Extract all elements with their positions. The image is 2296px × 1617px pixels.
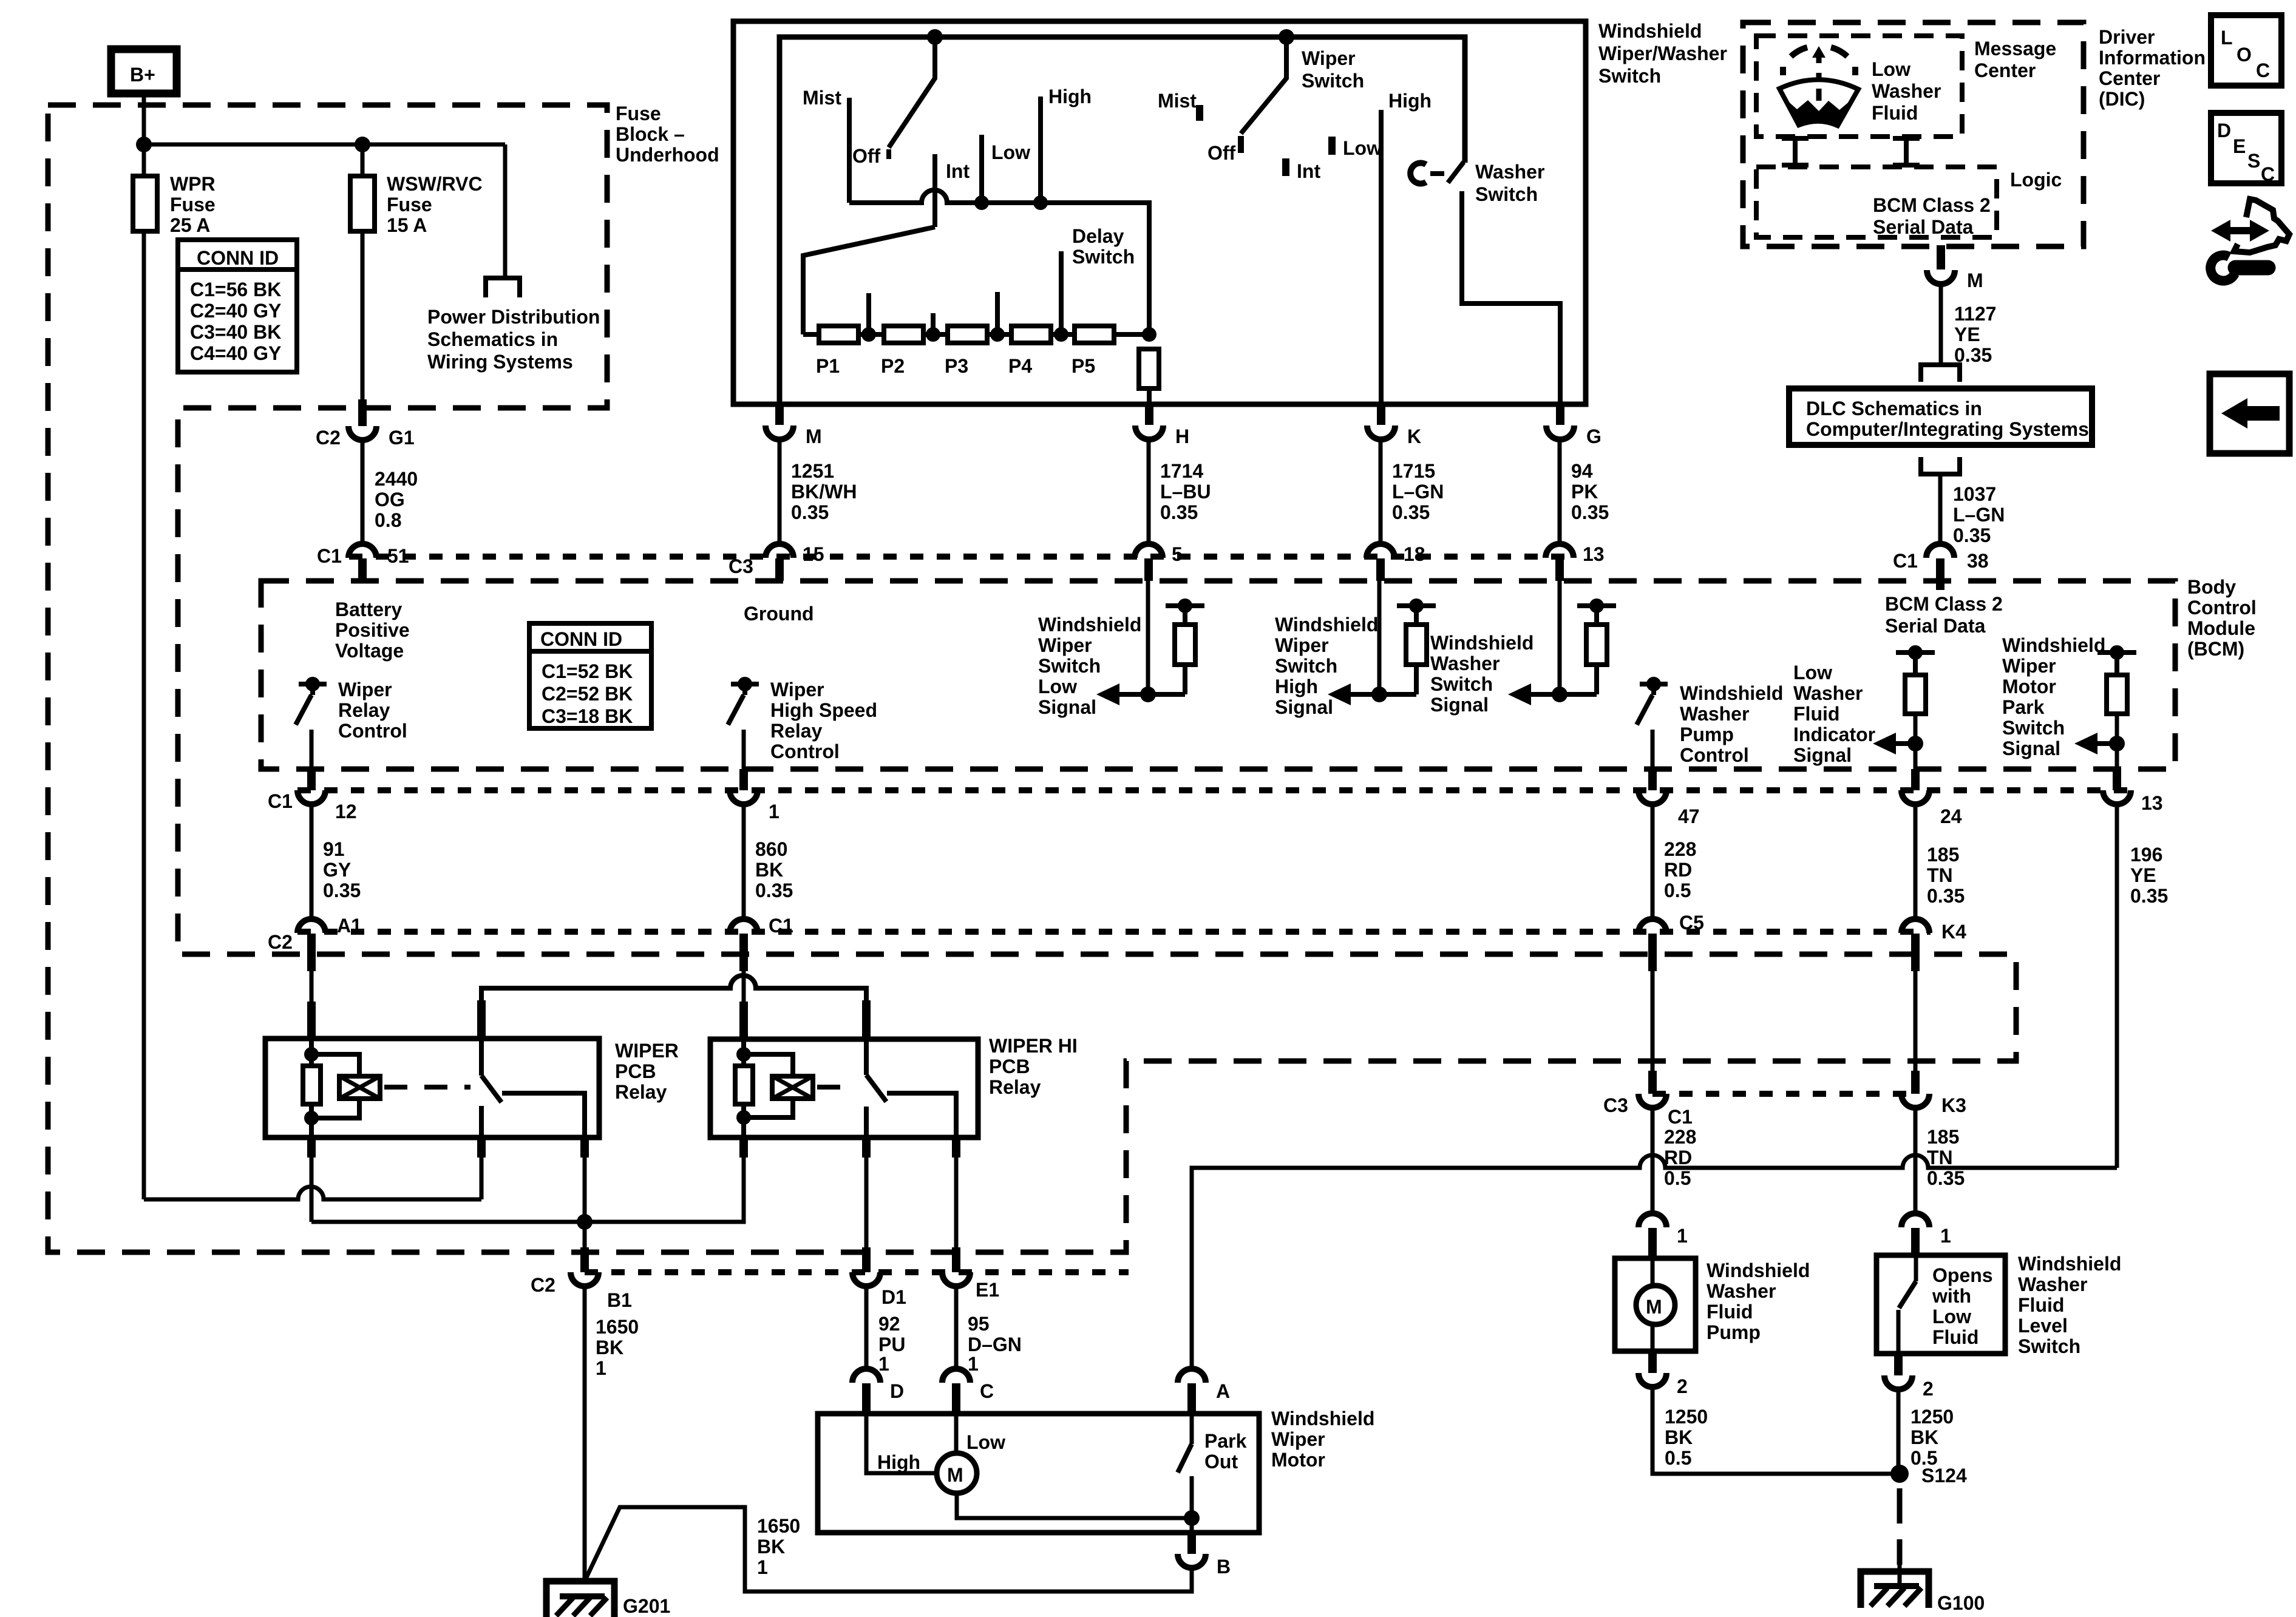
wiper motor park switch signal pull-down (2074, 645, 2136, 769)
svg-text:B1: B1 (607, 1289, 632, 1311)
wire resistor chain (803, 332, 1149, 337)
B+ box (111, 49, 177, 93)
switch windshield washer pump control (1640, 682, 1668, 686)
resistor K1 coil suppression (303, 1066, 321, 1104)
DIC outer dashed box (1743, 22, 2084, 246)
wire 185 TN upper (1914, 804, 1918, 921)
svg-text:0.35: 0.35 (791, 501, 829, 523)
svg-text:K4: K4 (1941, 921, 1966, 943)
svg-text:Ground: Ground (744, 603, 814, 625)
svg-text:M: M (947, 1464, 963, 1486)
svg-text:0.5: 0.5 (1665, 1447, 1691, 1469)
svg-text:Windshield: Windshield (2002, 634, 2105, 656)
svg-text:1: 1 (1940, 1225, 1951, 1247)
svg-text:WSW/RVC: WSW/RVC (387, 173, 483, 195)
svg-text:Fluid: Fluid (1793, 703, 1839, 725)
svg-text:Control: Control (1680, 744, 1749, 766)
svg-text:Power Distribution: Power Distribution (427, 306, 600, 328)
svg-text:Serial Data: Serial Data (1873, 216, 1974, 238)
svg-text:Fluid: Fluid (1932, 1326, 1978, 1348)
wire 94 PK (1558, 439, 1562, 546)
svg-text:92: 92 (878, 1313, 900, 1335)
svg-text:L: L (2221, 27, 2233, 49)
svg-text:Wiper: Wiper (1302, 47, 1356, 69)
svg-text:18: 18 (1404, 543, 1425, 565)
connector 2 washer pump (1648, 1351, 1657, 1373)
resistor K2 coil suppression (735, 1066, 753, 1104)
svg-text:M: M (1967, 269, 1983, 291)
windshield wiper/washer switch box (733, 21, 1586, 404)
svg-text:A: A (1216, 1380, 1230, 1402)
svg-text:G100: G100 (1937, 1592, 1985, 1614)
wire motor return (957, 1493, 1192, 1518)
svg-text:1250: 1250 (1911, 1406, 1954, 1428)
svg-text:13: 13 (1583, 543, 1605, 565)
BCM dashed box (261, 581, 2175, 769)
svg-text:K3: K3 (1941, 1094, 1966, 1116)
svg-text:Wiper: Wiper (770, 679, 824, 700)
wire position bus (849, 190, 1149, 334)
svg-text:Relay: Relay (770, 720, 823, 742)
svg-text:0.35: 0.35 (1927, 885, 1965, 907)
svg-text:15: 15 (803, 543, 824, 565)
svg-text:Fuse: Fuse (616, 103, 661, 124)
svg-text:Signal: Signal (1275, 696, 1333, 718)
connector G pin (1556, 403, 1564, 425)
fuse F2 WSW/RVC (350, 176, 375, 231)
low washer fluid indicator pull-down (1873, 645, 1935, 769)
svg-text:Signal: Signal (1430, 694, 1489, 716)
svg-text:Information: Information (2099, 47, 2206, 69)
svg-text:High Speed: High Speed (770, 699, 877, 721)
svg-text:Schematics in: Schematics in (427, 328, 558, 350)
connector 1 washer pump (1639, 1213, 1666, 1227)
node WSW branch (355, 137, 370, 152)
svg-text:15 A: 15 A (387, 214, 427, 236)
node wiper lever pivot (927, 29, 943, 45)
svg-text:Wiring Systems: Wiring Systems (427, 351, 573, 373)
svg-text:38: 38 (1967, 550, 1989, 572)
switch park out (1190, 1414, 1194, 1444)
svg-text:Block –: Block – (616, 123, 685, 145)
wire park signal line (1192, 1155, 2117, 1371)
svg-text:Switch: Switch (1275, 655, 1337, 677)
connector 1 level switch (1901, 1213, 1929, 1227)
svg-text:Off: Off (852, 145, 881, 167)
logic dashed box (1756, 167, 1997, 237)
svg-text:Motor: Motor (2002, 676, 2056, 697)
svg-text:C2=40 GY: C2=40 GY (190, 300, 281, 322)
wiper switch high signal pull-up (1328, 581, 1436, 705)
svg-text:WPR: WPR (170, 173, 216, 195)
CONN ID table fuse block (178, 240, 297, 372)
connector C (942, 1369, 970, 1383)
wire B+ branch horizontal (144, 143, 505, 147)
svg-text:CONN ID: CONN ID (540, 628, 622, 650)
connector C2 B1 (580, 1247, 589, 1272)
svg-text:0.35: 0.35 (323, 880, 361, 901)
svg-text:Switch: Switch (1475, 183, 1538, 205)
svg-text:H: H (1175, 425, 1189, 447)
svg-text:L–BU: L–BU (1160, 481, 1211, 503)
connector C1 38 (1926, 544, 1954, 558)
connector D1 (862, 1247, 871, 1272)
svg-text:Indicator: Indicator (1793, 724, 1875, 745)
connector 13 r2 (2113, 769, 2121, 790)
connector M pin (775, 403, 784, 425)
wire C1 to wiper hi relay coil (742, 971, 746, 1005)
wire motor high (866, 1414, 937, 1473)
wire 1715 L-GN (1379, 439, 1383, 546)
svg-text:Relay: Relay (989, 1076, 1041, 1098)
svg-text:BK: BK (596, 1337, 623, 1358)
node S124 (1890, 1465, 1909, 1483)
svg-text:Control: Control (338, 720, 407, 742)
svg-text:Low: Low (1932, 1306, 1971, 1327)
svg-text:High: High (1275, 676, 1318, 697)
svg-text:M: M (806, 425, 822, 447)
svg-text:0.35: 0.35 (1160, 501, 1198, 523)
svg-text:Wiper: Wiper (1038, 634, 1092, 656)
svg-text:D: D (2217, 120, 2231, 141)
svg-text:Wiper: Wiper (2002, 655, 2056, 677)
svg-text:Windshield: Windshield (1275, 614, 1378, 636)
svg-text:1: 1 (878, 1353, 889, 1375)
wire B+ feed to relay (144, 1187, 481, 1199)
svg-text:Park: Park (1204, 1430, 1247, 1452)
wire 1127 YE (1939, 284, 1943, 363)
svg-text:Washer: Washer (1430, 653, 1500, 674)
svg-text:Computer/Integrating Systems: Computer/Integrating Systems (1806, 418, 2089, 440)
svg-text:0.35: 0.35 (1571, 501, 1609, 523)
svg-text:D–GN: D–GN (968, 1334, 1022, 1355)
wire A1 to wiper relay coil (310, 971, 314, 1005)
wire 91 GY (310, 804, 314, 921)
washer pump box (1615, 1258, 1696, 1351)
svg-text:BCM Class 2: BCM Class 2 (1873, 194, 1991, 216)
connector 5 (1135, 544, 1163, 558)
svg-text:G1: G1 (389, 427, 415, 449)
svg-text:13: 13 (2141, 792, 2163, 814)
node relay output junction (577, 1214, 593, 1230)
svg-text:P2: P2 (881, 355, 905, 377)
wire 95 D-GN (954, 1286, 959, 1371)
svg-text:GY: GY (323, 859, 351, 881)
svg-text:0.5: 0.5 (1664, 1167, 1691, 1189)
wire WSW fuse drop (361, 144, 365, 402)
wire 1650 BK from B1 to G201 (583, 1286, 587, 1581)
svg-text:1250: 1250 (1665, 1406, 1708, 1428)
wire K1 coil low side (310, 1158, 314, 1222)
svg-text:C3=18 BK: C3=18 BK (542, 705, 633, 727)
svg-text:Fluid: Fluid (1707, 1301, 1753, 1323)
wire K2 output to E1 (954, 1158, 959, 1247)
svg-text:Washer: Washer (1872, 80, 1941, 102)
svg-text:C2=52 BK: C2=52 BK (542, 683, 633, 705)
svg-text:1715: 1715 (1392, 460, 1435, 482)
wire 1037 L-GN (1938, 474, 1943, 546)
svg-text:2: 2 (1923, 1378, 1934, 1400)
svg-text:E1: E1 (976, 1279, 999, 1301)
svg-text:C3: C3 (1603, 1094, 1628, 1116)
svg-text:Switch: Switch (1072, 246, 1135, 268)
svg-text:S: S (2247, 150, 2260, 172)
svg-text:CONN ID: CONN ID (197, 247, 279, 269)
svg-text:1: 1 (968, 1353, 979, 1375)
connector C1r2 1 (739, 769, 748, 790)
wire 1250 BK pump (1652, 1387, 1900, 1474)
wiper switch lever left (889, 37, 935, 147)
connector C3 15 (766, 544, 793, 558)
wire 1714 L-BU (1147, 439, 1151, 546)
contact Low right (1328, 137, 1336, 155)
svg-text:BCM Class 2: BCM Class 2 (1885, 593, 2003, 615)
svg-text:BK: BK (1665, 1426, 1693, 1448)
svg-text:Switch: Switch (1302, 70, 1364, 92)
svg-text:Control: Control (2187, 597, 2257, 619)
svg-text:0.35: 0.35 (755, 880, 793, 901)
connector row 2 dotted (297, 787, 2132, 793)
svg-text:1: 1 (757, 1556, 768, 1578)
wiper motor box (818, 1414, 1259, 1533)
svg-text:Center: Center (1974, 59, 2036, 81)
link K2 coil to contacts (817, 1085, 857, 1090)
svg-text:Fluid: Fluid (2018, 1294, 2064, 1316)
svg-text:PCB: PCB (615, 1060, 656, 1082)
connector C5 (1639, 919, 1666, 933)
relay K2 switch (864, 1039, 869, 1075)
svg-text:Switch: Switch (2002, 717, 2065, 739)
svg-text:Windshield: Windshield (1271, 1408, 1374, 1429)
svg-text:94: 94 (1571, 460, 1593, 482)
svg-text:Mist: Mist (1158, 90, 1197, 112)
wire 228 RD to washer pump (1651, 971, 1655, 1073)
svg-text:1037: 1037 (1953, 483, 1996, 505)
svg-text:0.35: 0.35 (1927, 1167, 1965, 1189)
svg-text:0.8: 0.8 (375, 509, 401, 531)
svg-text:Relay: Relay (338, 699, 390, 721)
svg-text:Motor: Motor (1271, 1449, 1325, 1471)
resistor P5 (1075, 326, 1114, 343)
icon diagnostic tool (2210, 199, 2289, 281)
svg-text:Low: Low (966, 1431, 1005, 1453)
svg-text:C: C (980, 1380, 994, 1402)
connector row 4 dotted (585, 1269, 1129, 1275)
svg-text:Switch: Switch (1038, 655, 1101, 677)
svg-text:Fuse: Fuse (387, 194, 432, 215)
contact High left (1038, 97, 1043, 203)
washer switch (1410, 163, 1426, 183)
relay K1 coil branch (309, 1039, 314, 1137)
svg-text:C1=56 BK: C1=56 BK (190, 279, 281, 300)
washer switch signal pull-up (1508, 581, 1616, 705)
connector C2 G1 (358, 399, 367, 426)
svg-text:D: D (890, 1380, 904, 1402)
contact Int left (932, 154, 937, 227)
svg-text:47: 47 (1678, 805, 1700, 827)
wire relay jumper (481, 975, 866, 1002)
coil K1 (339, 1076, 380, 1099)
svg-text:C2: C2 (531, 1274, 555, 1296)
resistor P3 (948, 326, 987, 343)
svg-text:P4: P4 (1008, 355, 1032, 377)
svg-text:S124: S124 (1921, 1465, 1967, 1486)
wire 1650 BK motor return (585, 1507, 1192, 1592)
off-page fork from DLC (1921, 457, 1960, 474)
off-page fork power distribution (486, 278, 520, 297)
washer fluid level switch box (1877, 1255, 2005, 1354)
wire 196 YE (2115, 804, 2119, 1168)
svg-text:PU: PU (878, 1334, 905, 1355)
svg-text:C4=40 GY: C4=40 GY (190, 342, 281, 364)
relay K2 pins below (739, 1137, 748, 1158)
connector D (852, 1369, 880, 1383)
svg-text:1714: 1714 (1160, 460, 1203, 482)
wire K1 output (583, 1158, 587, 1222)
svg-text:E: E (2233, 135, 2246, 157)
svg-text:5: 5 (1172, 543, 1183, 565)
svg-text:Park: Park (2002, 696, 2045, 718)
icon low washer fluid (1779, 46, 1858, 126)
DESC legend box (2211, 113, 2281, 183)
svg-text:1650: 1650 (757, 1515, 800, 1537)
connector 47 (1648, 769, 1657, 790)
resistor P4 (1011, 326, 1051, 343)
DLC reference box (1789, 388, 2092, 445)
connector C3 C1 washer pump harness (1639, 1094, 1666, 1108)
wire K1 common feed (480, 1158, 484, 1199)
svg-text:D1: D1 (881, 1286, 906, 1308)
switch wiper relay control (299, 682, 327, 686)
wire power distribution drop (503, 144, 508, 278)
svg-text:L–GN: L–GN (1392, 481, 1444, 503)
svg-text:Underhood: Underhood (616, 144, 719, 166)
svg-text:Out: Out (1204, 1451, 1238, 1473)
link message center to logic (1782, 138, 1809, 165)
svg-text:Int: Int (1297, 160, 1320, 182)
wire to G100 dashed (1897, 1488, 1903, 1565)
svg-text:Windshield: Windshield (1038, 614, 1141, 636)
svg-text:G: G (1586, 425, 1601, 447)
connector K pin (1377, 403, 1385, 425)
svg-text:Windshield: Windshield (1430, 632, 1533, 654)
svg-text:(DIC): (DIC) (2099, 88, 2145, 110)
svg-text:Driver: Driver (2099, 26, 2155, 48)
node P4-P5 delay switch (1054, 327, 1068, 342)
svg-text:Serial Data: Serial Data (1885, 615, 1986, 637)
connector 18 (1367, 544, 1394, 558)
connector H pin (1145, 403, 1153, 425)
off-page fork to DLC (1921, 365, 1960, 382)
connector row C3-K3 dotted (1652, 1091, 1915, 1097)
node P2-P3 (926, 327, 940, 342)
svg-text:Off: Off (1207, 142, 1236, 164)
svg-text:Level: Level (2018, 1315, 2068, 1337)
svg-text:P1: P1 (816, 355, 840, 377)
svg-text:1: 1 (596, 1357, 606, 1379)
connector M DIC (1937, 245, 1945, 269)
connector K3 (1901, 1094, 1929, 1108)
svg-text:C1: C1 (769, 915, 793, 937)
svg-text:Signal: Signal (1038, 696, 1096, 718)
motor M (937, 1453, 977, 1493)
svg-text:Delay: Delay (1072, 225, 1124, 247)
back arrow box (2210, 374, 2289, 453)
svg-text:DLC Schematics in: DLC Schematics in (1806, 398, 1982, 419)
connector 2 level switch (1894, 1354, 1903, 1375)
svg-text:Low: Low (1872, 58, 1911, 80)
contact Low left (979, 135, 984, 203)
contact Int right (1282, 158, 1289, 176)
svg-text:Wiper: Wiper (1271, 1428, 1325, 1450)
resistor P2 (884, 326, 923, 343)
svg-text:PK: PK (1571, 481, 1598, 503)
svg-text:Windshield: Windshield (2018, 1253, 2121, 1275)
svg-text:Positive: Positive (335, 619, 410, 641)
svg-text:C1=52 BK: C1=52 BK (542, 660, 633, 682)
svg-text:BK: BK (1911, 1426, 1938, 1448)
svg-text:185: 185 (1927, 844, 1959, 866)
connector C1 row3 (730, 919, 758, 933)
wiper switch lever right (1241, 37, 1286, 134)
link K1 coil to contacts (384, 1085, 470, 1090)
motor washer pump (1651, 1258, 1655, 1286)
svg-text:K: K (1407, 425, 1421, 447)
connector C1 12 (307, 769, 316, 790)
svg-text:Message: Message (1974, 38, 2056, 59)
svg-text:Low: Low (1793, 662, 1832, 683)
CONN ID table BCM (529, 623, 651, 728)
svg-text:2440: 2440 (375, 468, 418, 490)
ground G201 (546, 1581, 614, 1617)
svg-text:Fuse: Fuse (170, 194, 216, 215)
wire 860 BK (742, 804, 746, 921)
svg-text:Switch: Switch (1430, 673, 1493, 695)
connector row 3 dotted (297, 929, 1931, 935)
wire 185 TN to level switch (1914, 971, 1918, 1073)
connector K4 (1901, 919, 1929, 933)
svg-text:Control: Control (770, 741, 840, 762)
wire 2440 OG (361, 440, 365, 546)
svg-text:Low: Low (1343, 137, 1382, 159)
svg-text:Wiper/Washer: Wiper/Washer (1598, 42, 1727, 64)
svg-text:196: 196 (2130, 844, 2162, 866)
svg-text:TN: TN (1927, 1147, 1953, 1168)
svg-text:228: 228 (1664, 1126, 1696, 1148)
svg-text:High: High (1388, 90, 1432, 112)
svg-text:High: High (877, 1451, 920, 1473)
connector E1 (952, 1247, 960, 1272)
svg-text:Relay: Relay (615, 1081, 667, 1103)
svg-text:24: 24 (1940, 805, 1962, 827)
svg-text:High: High (1048, 86, 1092, 107)
svg-text:Fluid: Fluid (1872, 102, 1918, 124)
svg-text:with: with (1932, 1285, 1971, 1307)
svg-text:TN: TN (1927, 864, 1953, 886)
svg-text:L–GN: L–GN (1953, 504, 2005, 526)
svg-text:Battery: Battery (335, 598, 402, 620)
svg-text:Windshield: Windshield (1707, 1259, 1810, 1281)
svg-text:Switch: Switch (2018, 1335, 2080, 1357)
svg-text:2: 2 (1677, 1375, 1688, 1397)
svg-text:C1: C1 (1668, 1106, 1693, 1128)
svg-text:Wiper: Wiper (338, 679, 392, 700)
wire motor low (954, 1414, 959, 1453)
svg-text:WIPER: WIPER (615, 1040, 679, 1062)
relay K2 WIPER HI PCB box (710, 1039, 978, 1137)
svg-text:M: M (1646, 1296, 1662, 1318)
svg-text:Pump: Pump (1680, 724, 1734, 745)
